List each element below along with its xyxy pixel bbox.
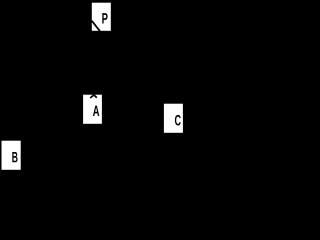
arrowhead at node A [90, 95, 97, 98]
node P [92, 3, 111, 31]
node B [2, 141, 21, 170]
wire through node P corner [92, 21, 100, 32]
node C [164, 104, 183, 133]
node A [83, 95, 102, 124]
